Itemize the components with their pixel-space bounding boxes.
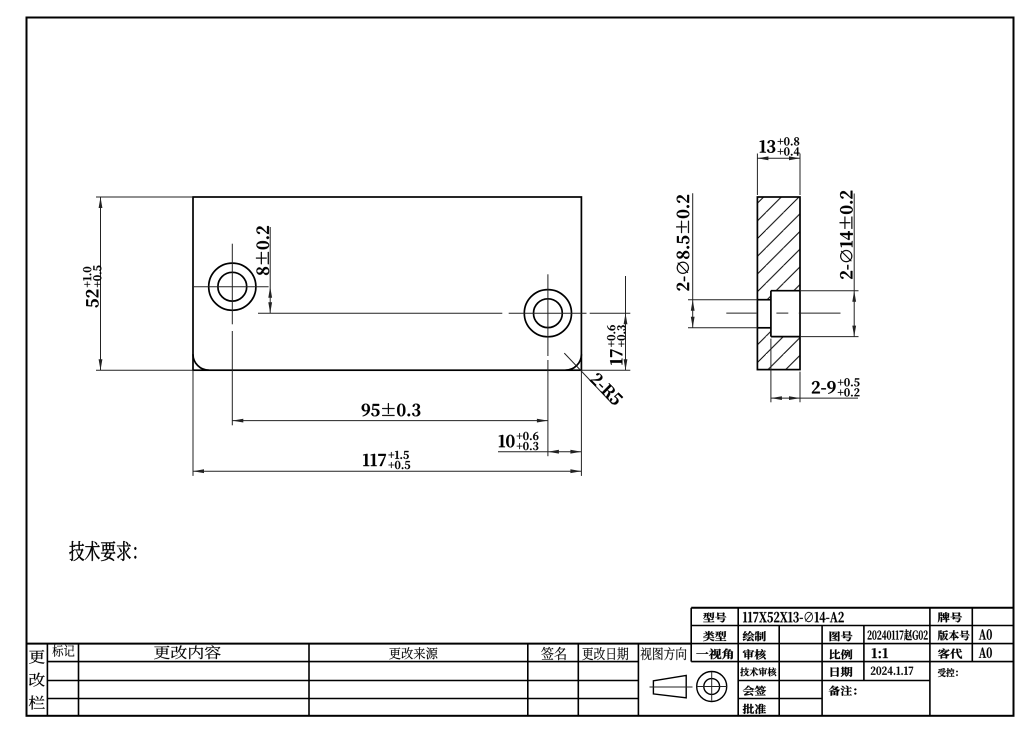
label 签名: [541, 647, 566, 660]
right hole horizontal center line segment 1: [258, 312, 502, 314]
dim 2-Ø8.5 extension line bottom: [688, 327, 757, 329]
side view center line segment 1: [726, 312, 756, 314]
label 更改日期: [582, 647, 628, 660]
label 会签: [743, 686, 766, 696]
side view center line segment 3: [799, 312, 841, 314]
side view center line segment 2: [776, 312, 788, 314]
dim 8 arrow down: [268, 302, 272, 313]
dim 13 extension line right: [799, 154, 801, 196]
side view hatched section upper region: [757, 197, 800, 300]
dim 117 text: [363, 451, 410, 469]
counterbore left edge: [770, 291, 772, 337]
dim 2-Ø8.5 text: [676, 195, 689, 291]
label 日期: [831, 667, 853, 677]
dim 117 arrow right: [570, 469, 581, 473]
dim 2-Ø8.5 arrow down: [691, 317, 695, 328]
dim 52 extension line bottom: [96, 369, 193, 371]
dim 2-Ø8.5 dimension line: [692, 193, 694, 327]
label 一视角: [696, 649, 733, 660]
value 版本号 A0: [979, 629, 992, 639]
dim 17 text: [607, 325, 625, 364]
dim 17 dimension line: [625, 276, 627, 370]
value model number: [743, 612, 844, 623]
dim 52 arrow down: [99, 359, 103, 370]
side view hatched section lower region: [757, 328, 800, 370]
dim 10 arrow left: [548, 450, 559, 454]
label 更 (revision bar): [29, 650, 44, 664]
dim 2-Ø14 extension line bottom: [800, 336, 859, 338]
dim 95 dimension line: [232, 420, 548, 422]
dim 95 extension line right: [547, 360, 549, 456]
dim 8 dimension line: [269, 227, 271, 313]
small hole top edge: [757, 299, 771, 301]
left hole horizontal center line: [193, 286, 269, 288]
left hole inner circle (Ø8.5): [218, 272, 247, 301]
value 客代 A0: [979, 647, 992, 657]
counterbore bottom edge: [771, 336, 800, 338]
dim 2-Ø14 extension line top: [800, 290, 859, 292]
bottom-right corner fillet R5: [565, 354, 581, 370]
small hole bottom edge: [757, 327, 771, 329]
label 比例: [830, 649, 853, 659]
left hole vertical center line: [231, 244, 233, 325]
right hole inner circle (Ø8.5): [534, 299, 563, 328]
dim 2-9 arrow left: [771, 396, 782, 400]
dim 117 extension line left: [192, 370, 194, 476]
dim 10 text: [499, 432, 539, 450]
label 审核: [743, 649, 766, 659]
dim 2-Ø8.5 extension line top: [688, 299, 757, 301]
label 绘制: [743, 631, 766, 641]
dim 13 text: [760, 137, 800, 155]
dim 2-Ø14 text: [840, 191, 853, 279]
technical requirements heading: [69, 541, 136, 561]
dim 17 arrow down: [624, 359, 628, 370]
dim 8 text: [256, 226, 269, 275]
dim 2-9 extension line right: [799, 372, 801, 403]
projection symbol circle view: [697, 672, 728, 702]
corner radius leader line: [564, 353, 612, 404]
dim 17 arrow up: [624, 313, 628, 324]
label 备注: [829, 686, 857, 696]
dim 8 arrow up: [268, 287, 272, 298]
label 客代: [938, 649, 962, 659]
dim 10 dimension line: [498, 451, 581, 453]
title block grid: [691, 608, 1013, 716]
label 更改来源: [389, 647, 437, 659]
bottom-left corner fillet R5: [193, 354, 209, 370]
dim 2-9 extension line left: [770, 339, 772, 403]
value drawing number: [868, 629, 928, 640]
right hole horizontal center line segment 2: [509, 312, 587, 314]
dim 95 arrow right: [537, 419, 548, 423]
dim 2-Ø8.5 arrow up: [691, 300, 695, 311]
label 视图方向: [640, 647, 686, 660]
label 更改内容: [154, 645, 221, 659]
value date: [871, 667, 913, 675]
dim 52 extension line top: [96, 196, 193, 198]
label 类型: [703, 631, 726, 641]
dim 117 extension line right: [580, 370, 582, 476]
label 批准: [743, 704, 766, 714]
side view outline: [757, 197, 800, 370]
dim 2-Ø14 arrow up: [852, 291, 856, 302]
dim 117 arrow left: [193, 469, 204, 473]
left hole outer circle (counterbore Ø14): [209, 263, 256, 310]
dim 117 dimension line: [193, 470, 581, 472]
dim 52 dimension line: [100, 197, 102, 370]
dim 13 dimension line: [757, 157, 800, 159]
right hole horizontal center line segment 3 (dim 17 extension): [590, 312, 631, 314]
label 改 (revision bar): [29, 673, 44, 687]
dim 10 arrow right: [570, 450, 581, 454]
dim 2-9 dimension line: [771, 397, 858, 399]
dim 95 arrow left: [232, 419, 243, 423]
dim 2-Ø14 arrow down: [852, 326, 856, 337]
dim 95 extension line left: [231, 331, 233, 425]
dim 2-9 arrow right: [789, 396, 800, 400]
front view plate outline: [193, 197, 581, 370]
right hole outer circle (counterbore Ø14): [524, 290, 571, 337]
right hole vertical center line: [547, 274, 549, 356]
dim 2-9 text: [812, 378, 860, 396]
label 版本号: [938, 630, 970, 640]
projection symbol cone: [650, 675, 693, 697]
counterbore top edge: [771, 290, 800, 292]
label 技术审核: [740, 667, 776, 676]
dim 52 text: [83, 266, 101, 308]
label 图号: [830, 631, 853, 641]
label 受控: [938, 668, 958, 677]
dim 17 extension line bottom: [581, 369, 630, 371]
label 牌号: [938, 612, 962, 622]
label 标记: [52, 645, 74, 657]
dim 2-Ø14 dimension line: [853, 194, 855, 337]
dim 13 arrow left: [757, 156, 768, 160]
value scale 1:1: [872, 648, 888, 658]
dim 13 arrow right: [789, 156, 800, 160]
corner radius text 2-R5: [589, 372, 623, 406]
dim 52 arrow up: [99, 197, 103, 208]
revision table grid: [27, 644, 692, 716]
dim 95 text: [362, 403, 420, 416]
dim 13 extension line left: [756, 154, 758, 196]
label 栏 (revision bar): [29, 696, 45, 710]
label 型号: [703, 612, 726, 622]
